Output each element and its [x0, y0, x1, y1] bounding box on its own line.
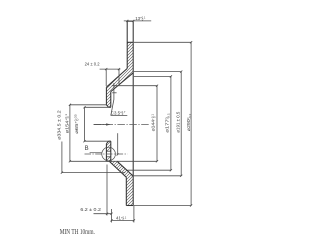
tick [156, 85, 158, 87]
tick [61, 172, 63, 174]
tick [170, 75, 172, 77]
tick [69, 160, 71, 162]
tick [126, 20, 128, 22]
tick [180, 71, 182, 73]
ring hatch boundary line [127, 41, 133, 43]
extension to dia144 top [112, 85, 157, 87]
tick [110, 219, 112, 221]
dim 24 right extension [118, 69, 120, 84]
tick [83, 140, 85, 142]
dim C vertical dia65 [84, 107, 86, 141]
hole top edge [109, 106, 111, 108]
tick [83, 106, 85, 108]
dim A bottom horizontal [62, 172, 125, 174]
tick [190, 204, 192, 206]
extension dia177 bottom [128, 169, 171, 171]
bottom outer slant [109, 161, 126, 177]
svg-text:⌀334.5 ± 0.2: ⌀334.5 ± 0.2 [56, 110, 61, 140]
tick [118, 68, 120, 70]
bottom block left edge [125, 177, 127, 205]
extension bottom edge to dia300 [134, 205, 191, 207]
leader cross tick [112, 92, 116, 94]
C3.5 leader [111, 83, 114, 115]
dim 6.2 line [94, 213, 112, 215]
balloon leader [90, 152, 102, 154]
bolt hole axis centerline [85, 153, 128, 155]
tick [110, 213, 112, 215]
svg-text:B: B [85, 146, 89, 152]
bolt hole lower edge [106, 156, 110, 158]
flange bottom face [106, 160, 110, 162]
tick [105, 68, 107, 70]
wall left face lower [105, 144, 107, 162]
hole top chamfer [106, 105, 108, 108]
hatch flange wall below bolt hole [106, 157, 110, 161]
extension x133.9 bottom [133, 206, 135, 223]
dim dia177 vertical [170, 76, 172, 170]
dim B top extension [70, 104, 107, 106]
dim C top extension [85, 106, 111, 108]
tick [180, 175, 182, 177]
hatch flange wall upper [106, 87, 110, 107]
svg-text:6.2 ± 0.2: 6.2 ± 0.2 [80, 207, 101, 212]
extension to dia177 top [134, 75, 171, 77]
tick [133, 219, 135, 221]
bottom inner slant [117, 161, 133, 176]
tick [132, 20, 134, 22]
tick [106, 213, 108, 215]
dim dia300 vertical [190, 42, 192, 205]
dim 13 line [124, 20, 151, 22]
balloon B circle [102, 147, 116, 161]
main axis centerline [94, 124, 149, 126]
dim dia190 vertical [180, 72, 182, 176]
hatch top slant band [106, 69, 133, 92]
bolt hole upper edge [106, 150, 110, 152]
bottom edge of block [126, 205, 133, 207]
extension line to dia300 top [134, 41, 191, 43]
tick [69, 104, 71, 106]
tick [170, 169, 172, 171]
dim 24 line [100, 68, 121, 70]
ring left face [126, 21, 128, 68]
extension to dia190 top [134, 71, 181, 73]
long bottom extension across flange [70, 160, 157, 162]
wall right face upper [110, 92, 112, 108]
extension dia190 bottom [132, 175, 182, 177]
dim 41 line [112, 219, 134, 221]
top inner slant [111, 73, 133, 92]
mounting face extension lower [106, 165, 108, 216]
top outer slant [106, 69, 127, 88]
dim B vertical [69, 105, 71, 162]
hole bottom chamfer [106, 141, 108, 144]
right extension x111.5 [111, 209, 113, 223]
dim A vertical [61, 142, 63, 173]
wall right face lower [110, 141, 112, 161]
dim 24 left extension [105, 69, 107, 86]
C3.5 leader shelf [111, 114, 128, 116]
hatch flange wall lower [106, 141, 110, 151]
wall left face upper [105, 87, 107, 105]
ring top edge [127, 20, 133, 22]
PCD extension line [117, 133, 119, 154]
hatch friction ring section [127, 42, 133, 73]
svg-text:⌀191 ± 0.5: ⌀191 ± 0.5 [175, 111, 180, 133]
dim dia144 vertical [156, 86, 158, 162]
tick [117, 153, 119, 155]
svg-text:MIN TH 10mm.: MIN TH 10mm. [60, 228, 95, 236]
hole bottom edge [109, 140, 111, 142]
svg-text:24 ± 0.2: 24 ± 0.2 [85, 62, 100, 67]
tick [156, 160, 158, 162]
tick [190, 41, 192, 43]
hatch bottom slant band and block [109, 161, 133, 205]
outboard face long vertical [132, 21, 134, 205]
dim C bottom extension [85, 140, 111, 142]
